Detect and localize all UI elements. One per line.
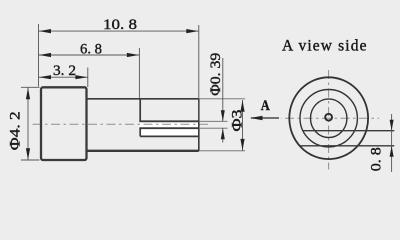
dimension 3.2 line (39, 76, 88, 78)
extension line x199 (10.8) (198, 25, 200, 120)
extension line left datum x40 (38, 24, 40, 87)
dim 0.8 lower arrow (up) (390, 146, 394, 157)
dimension 6.8 line (39, 54, 140, 56)
front face (198, 99, 200, 151)
dimension 3.2 right arrow (75, 75, 87, 79)
svg-text:A: A (261, 98, 270, 114)
cylinder bottom edge (87, 150, 199, 152)
slot lower chord (300, 145, 395, 147)
phi0.39 dimension upper segment (222, 58, 224, 121)
pin area white fill (139, 121, 198, 136)
extension line x140 (6.8) (138, 48, 140, 98)
phi4.2 dimension line (27, 87, 29, 160)
extension line x87 (3.2) (87, 68, 89, 88)
middle circle (300, 90, 357, 147)
pin bottom edge (139, 127, 198, 129)
phi3 dimension line (242, 100, 244, 151)
pin top edge (dia 0.39) (139, 120, 198, 122)
phi4.2 top arrow (26, 88, 30, 100)
phi4.2 extension line top (21, 86, 40, 88)
svg-text:Φ3: Φ3 (230, 110, 246, 132)
svg-text:A view side: A view side (282, 37, 367, 54)
internal step edge lower (139, 128, 141, 136)
phi4.2 bottom arrow (26, 148, 30, 160)
svg-text:6. 8: 6. 8 (80, 41, 102, 57)
svg-text:0. 8: 0. 8 (369, 147, 385, 171)
cylinder top edge (dia 3) (87, 98, 199, 100)
lower slot edge (140, 135, 199, 137)
phi0.39 dimension lower segment (222, 128, 224, 142)
phi3 top arrow (240, 100, 244, 112)
phi3 bottom arrow (240, 139, 244, 151)
dimension 3.2 left arrow (39, 75, 51, 79)
dimension 10.8 right arrow (186, 29, 198, 33)
dimension 6.8 right arrow (127, 53, 139, 57)
cylinder top extension line (phi3) (199, 98, 245, 100)
body outline (rear block, dia 4.2) (41, 87, 87, 160)
A-view vertical centerline (328, 68, 330, 170)
svg-text:Φ0. 39: Φ0. 39 (208, 53, 224, 96)
dim 0.8 line (391, 114, 393, 172)
outer circle (289, 77, 368, 159)
phi0.39 lower arrow (up) (221, 128, 225, 139)
dimension 6.8 left arrow (39, 53, 51, 57)
view arrow A line (251, 117, 279, 119)
dimension 10.8 line (39, 30, 199, 32)
inner circle (311, 99, 347, 138)
cylinder bottom extension line (phi3) (199, 150, 245, 152)
svg-text:Φ4. 2: Φ4. 2 (7, 111, 23, 150)
svg-text:10. 8: 10. 8 (103, 17, 137, 33)
pin extension line top (phi0.39) (199, 120, 228, 122)
dimension 10.8 left arrow (39, 29, 51, 33)
phi0.39 upper arrow (down) (221, 110, 225, 121)
slot upper chord (303, 130, 394, 132)
internal step edge upper (139, 99, 141, 122)
centerline of side view (30, 123, 211, 125)
phi4.2 extension line bottom (21, 159, 40, 161)
center pin circle (325, 114, 332, 121)
pin extension line bottom (phi0.39) (199, 127, 228, 129)
svg-text:3. 2: 3. 2 (53, 63, 76, 79)
view arrow A head (250, 116, 263, 121)
A-view horizontal centerline (281, 117, 379, 119)
dim 0.8 upper arrow (down) (390, 120, 394, 131)
